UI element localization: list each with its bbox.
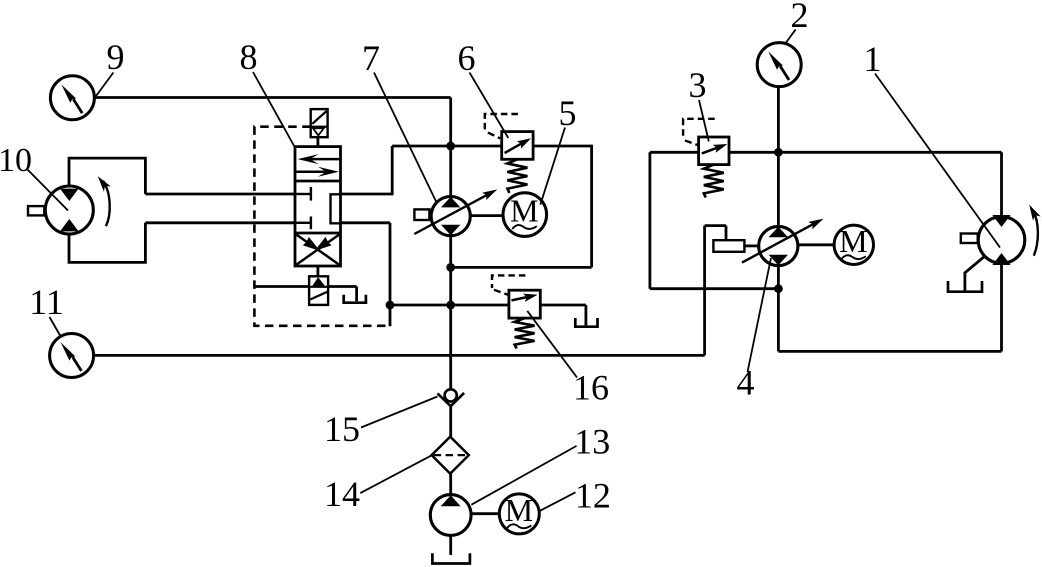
svg-text:9: 9 bbox=[107, 37, 125, 77]
svg-text:13: 13 bbox=[574, 422, 610, 462]
svg-text:11: 11 bbox=[29, 282, 64, 322]
svg-text:3: 3 bbox=[689, 65, 707, 105]
svg-text:14: 14 bbox=[324, 474, 360, 514]
svg-text:7: 7 bbox=[362, 38, 380, 78]
svg-text:15: 15 bbox=[324, 409, 360, 449]
svg-text:1: 1 bbox=[864, 39, 882, 79]
svg-text:M: M bbox=[510, 193, 538, 229]
svg-text:16: 16 bbox=[573, 368, 609, 408]
svg-text:M: M bbox=[839, 223, 867, 259]
svg-text:2: 2 bbox=[791, 0, 809, 35]
svg-text:12: 12 bbox=[575, 476, 611, 516]
svg-text:8: 8 bbox=[240, 37, 258, 77]
svg-text:10: 10 bbox=[0, 142, 32, 179]
svg-text:6: 6 bbox=[458, 38, 476, 78]
svg-text:4: 4 bbox=[737, 363, 755, 403]
svg-text:5: 5 bbox=[559, 93, 577, 133]
svg-text:M: M bbox=[505, 492, 533, 528]
